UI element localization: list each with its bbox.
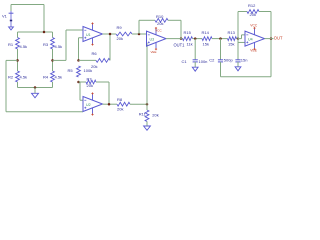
svg-text:R5: R5 xyxy=(68,68,74,73)
svg-text:R12: R12 xyxy=(248,3,256,8)
svg-text:15k: 15k xyxy=(228,41,234,46)
svg-text:U1: U1 xyxy=(86,33,91,37)
svg-text:4.5k: 4.5k xyxy=(20,75,28,80)
svg-text:20k: 20k xyxy=(152,113,158,118)
svg-text:500p: 500p xyxy=(224,57,234,62)
svg-text:OUT1: OUT1 xyxy=(174,42,186,47)
svg-text:R9: R9 xyxy=(117,25,123,30)
svg-text:20k: 20k xyxy=(117,106,123,111)
svg-text:C2: C2 xyxy=(209,57,215,62)
svg-text:V1: V1 xyxy=(2,14,8,19)
svg-text:20k: 20k xyxy=(117,36,123,41)
svg-text:R15: R15 xyxy=(184,30,192,35)
svg-text:100n: 100n xyxy=(199,59,208,64)
svg-text:U3: U3 xyxy=(150,38,155,42)
svg-text:R14: R14 xyxy=(202,30,210,35)
svg-text:U4: U4 xyxy=(248,38,253,42)
svg-text:VEE: VEE xyxy=(250,49,257,53)
svg-text:VEE: VEE xyxy=(151,50,157,54)
svg-text:R13: R13 xyxy=(228,30,236,35)
svg-text:VCC: VCC xyxy=(250,24,258,28)
svg-text:20k: 20k xyxy=(250,12,256,17)
svg-text:R8: R8 xyxy=(117,97,123,102)
svg-text:4.5k: 4.5k xyxy=(55,44,63,49)
svg-text:R2: R2 xyxy=(8,75,14,80)
svg-text:100k: 100k xyxy=(84,68,93,73)
svg-text:11k: 11k xyxy=(187,41,193,46)
svg-text:R3: R3 xyxy=(43,42,49,47)
svg-text:R11: R11 xyxy=(139,111,147,116)
svg-text:20k: 20k xyxy=(157,21,163,26)
svg-text:R7: R7 xyxy=(87,77,93,82)
svg-text:R6: R6 xyxy=(92,51,98,56)
svg-text:C1: C1 xyxy=(182,59,188,64)
svg-text:4.5k: 4.5k xyxy=(20,44,28,49)
svg-text:U2: U2 xyxy=(86,103,91,107)
svg-text:15k: 15k xyxy=(203,41,209,46)
svg-text:20k: 20k xyxy=(87,83,93,88)
svg-text:R10: R10 xyxy=(156,14,164,19)
svg-text:R4: R4 xyxy=(43,75,49,80)
svg-text:15n: 15n xyxy=(241,57,248,62)
svg-text:R1: R1 xyxy=(8,42,14,47)
svg-text:4.5k: 4.5k xyxy=(55,75,63,80)
svg-text:OUT: OUT xyxy=(274,36,283,41)
svg-text:VCC: VCC xyxy=(155,29,162,33)
